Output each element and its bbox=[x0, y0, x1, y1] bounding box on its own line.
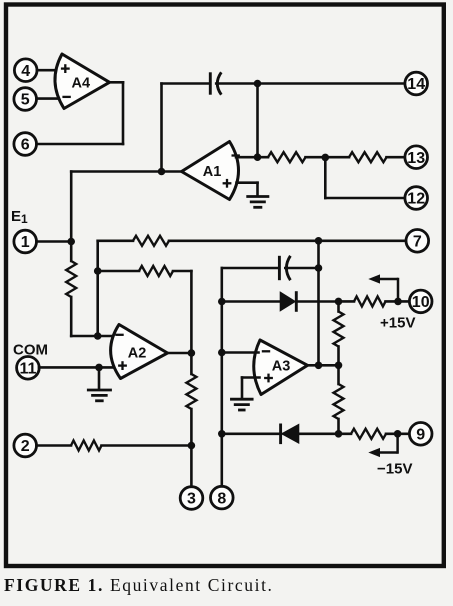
wire bbox=[37, 143, 124, 146]
-15V supply tap arrow bbox=[368, 434, 397, 457]
terminal pin 3 bbox=[180, 487, 203, 510]
ground at A2 bbox=[87, 390, 112, 401]
junction A1 output / cap column bbox=[158, 168, 166, 176]
capacitor C1 bbox=[210, 72, 221, 94]
wire bbox=[236, 156, 268, 159]
terminal pin 1 bbox=[14, 230, 37, 253]
wire bbox=[98, 270, 139, 273]
terminal pin 7 bbox=[406, 230, 429, 253]
wire bbox=[168, 352, 192, 355]
resistor E1 column bbox=[66, 261, 76, 297]
terminal pin 2 bbox=[14, 434, 37, 457]
resistor to pin 10 bbox=[354, 296, 386, 306]
wire bbox=[222, 432, 281, 435]
resistor A2 to pin 7 row bbox=[133, 236, 169, 246]
wire bbox=[190, 271, 193, 374]
svg-text:7: 7 bbox=[413, 234, 422, 251]
resistor A1 feedback to pin 13 bbox=[268, 152, 306, 162]
resistor A2 feedback bbox=[139, 266, 173, 276]
wire bbox=[256, 84, 259, 158]
svg-text:A2: A2 bbox=[128, 345, 147, 361]
junction divider mid bbox=[335, 362, 343, 370]
wire bbox=[122, 82, 125, 144]
junction A3 minus bbox=[218, 349, 226, 357]
wire bbox=[37, 240, 72, 243]
resistor pin 2 bbox=[71, 441, 102, 451]
terminal pin 8 bbox=[211, 486, 234, 509]
wire bbox=[337, 365, 340, 384]
op-amp A2 bbox=[111, 325, 168, 379]
junction cap2 right bbox=[315, 264, 323, 272]
junction A2 minus node bbox=[94, 332, 102, 340]
svg-text:6: 6 bbox=[21, 137, 30, 154]
wire bbox=[70, 172, 73, 262]
svg-text:12: 12 bbox=[407, 191, 425, 208]
+15V supply tap arrow bbox=[368, 274, 398, 301]
svg-text:A4: A4 bbox=[72, 75, 91, 91]
wire bbox=[173, 270, 191, 273]
wire bbox=[222, 300, 281, 303]
wire bbox=[37, 69, 59, 72]
junction second feedback row bbox=[94, 267, 102, 275]
svg-text:4: 4 bbox=[21, 63, 30, 80]
wire bbox=[98, 240, 133, 243]
terminal pin 14 bbox=[405, 72, 428, 95]
junction cap / A1 minus column bbox=[254, 80, 262, 88]
junction +15V tap bbox=[394, 298, 402, 306]
junction diode1 / resistor column bbox=[335, 298, 343, 306]
wire bbox=[110, 81, 124, 84]
wire bbox=[169, 240, 406, 243]
wire bbox=[71, 335, 113, 338]
svg-text:1: 1 bbox=[21, 234, 30, 251]
ground at A3 bbox=[230, 399, 254, 410]
wire bbox=[70, 297, 73, 336]
svg-text:11: 11 bbox=[19, 361, 36, 378]
junction pin7 row / A3 column bbox=[315, 237, 323, 245]
svg-text:E1: E1 bbox=[11, 208, 28, 226]
svg-text:5: 5 bbox=[21, 92, 30, 109]
wire bbox=[386, 300, 410, 303]
junction A2 output bbox=[188, 349, 196, 357]
svg-text:A3: A3 bbox=[272, 358, 291, 374]
wire bbox=[242, 376, 260, 379]
junction A2 plus / ground bbox=[95, 364, 103, 372]
wire bbox=[241, 378, 244, 399]
resistor to pin 9 bbox=[351, 429, 386, 439]
junction E1 node bbox=[67, 238, 75, 246]
caption FIGURE 1 bbox=[4, 575, 453, 596]
svg-text:10: 10 bbox=[412, 294, 430, 311]
junction A3 output / cap2 column bbox=[315, 362, 323, 370]
wire bbox=[237, 181, 258, 184]
terminal pin 5 bbox=[14, 88, 37, 111]
terminal pin 13 bbox=[405, 146, 428, 169]
wire bbox=[98, 367, 101, 389]
wire bbox=[37, 444, 72, 447]
junction -15V tap bbox=[394, 430, 402, 438]
wire bbox=[285, 267, 318, 270]
terminal pin 6 bbox=[14, 133, 37, 156]
op-amp A1 bbox=[182, 142, 240, 200]
terminal pin 9 bbox=[409, 423, 432, 446]
wire bbox=[190, 409, 193, 487]
diode D1 bbox=[280, 291, 296, 312]
svg-text:14: 14 bbox=[407, 76, 425, 93]
wire bbox=[337, 347, 340, 366]
junction diode2 / divider bbox=[335, 430, 343, 438]
wire bbox=[317, 241, 320, 365]
wire bbox=[324, 157, 327, 198]
svg-text:8: 8 bbox=[217, 490, 226, 507]
op-amp A3 bbox=[254, 340, 308, 395]
diode D2 bbox=[281, 424, 299, 445]
junction pin13 node bbox=[322, 154, 330, 162]
svg-text:+15V: +15V bbox=[380, 315, 415, 332]
svg-text:3: 3 bbox=[187, 491, 196, 508]
resistor A2 output column bbox=[186, 374, 196, 409]
wire bbox=[337, 419, 340, 434]
svg-text:A1: A1 bbox=[203, 164, 222, 180]
wire bbox=[71, 170, 182, 173]
wire bbox=[222, 267, 279, 270]
terminal pin 11 bbox=[17, 357, 40, 380]
wire bbox=[256, 183, 259, 196]
junction diode2 cathode bbox=[218, 430, 226, 438]
wire bbox=[96, 241, 99, 336]
resistor divider upper bbox=[334, 312, 344, 347]
svg-text:13: 13 bbox=[407, 150, 425, 167]
wire bbox=[339, 300, 355, 303]
wire bbox=[308, 364, 339, 367]
wire bbox=[299, 432, 351, 435]
svg-text:9: 9 bbox=[416, 427, 425, 444]
wire bbox=[221, 268, 224, 486]
terminal pin 4 bbox=[14, 59, 37, 82]
wire bbox=[386, 432, 410, 435]
terminal pin 10 bbox=[409, 290, 432, 313]
svg-text:2: 2 bbox=[21, 438, 30, 455]
wire bbox=[296, 300, 338, 303]
terminal pin 12 bbox=[405, 187, 428, 210]
wire bbox=[337, 301, 340, 311]
svg-text:−15V: −15V bbox=[377, 461, 412, 478]
wire bbox=[37, 97, 59, 100]
junction A1 minus node bbox=[254, 153, 262, 161]
wire bbox=[222, 351, 259, 354]
wire bbox=[39, 366, 114, 369]
junction pin2 row bbox=[188, 442, 196, 450]
wire bbox=[325, 197, 405, 200]
wire bbox=[216, 82, 405, 85]
wire bbox=[160, 84, 163, 172]
capacitor C2 bbox=[279, 256, 290, 280]
resistor pin13 node to pin 13 bbox=[349, 152, 387, 162]
wire bbox=[387, 156, 405, 159]
wire bbox=[102, 444, 192, 447]
wire bbox=[162, 82, 210, 85]
junction diode1 anode bbox=[218, 298, 226, 306]
wire bbox=[306, 156, 350, 159]
op-amp A4 bbox=[55, 54, 110, 109]
ground at A1 bbox=[246, 197, 269, 208]
resistor divider lower bbox=[334, 384, 344, 419]
